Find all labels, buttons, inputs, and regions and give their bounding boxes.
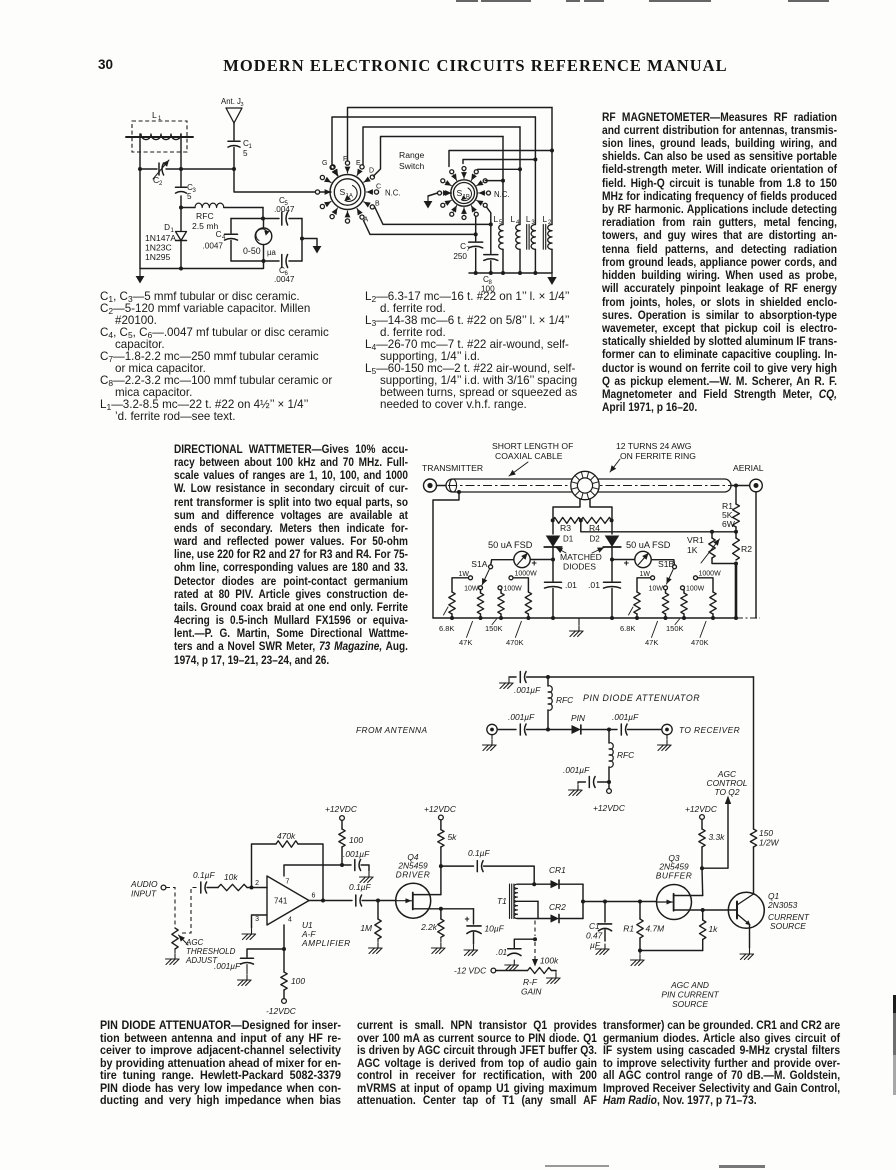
- svg-text:PIN DIODE ATTENUATOR: PIN DIODE ATTENUATOR: [583, 693, 700, 703]
- wire meter to S1B wiper: [651, 560, 674, 565]
- svg-text:.0047: .0047: [274, 205, 295, 214]
- svg-text:1000W: 1000W: [515, 571, 538, 578]
- node D1 meter junction: [551, 558, 555, 562]
- capacitor 10uF electrolytic: [465, 909, 505, 944]
- ground at S1B arm: [427, 196, 429, 201]
- svg-text:470K: 470K: [691, 638, 709, 647]
- node Q4 source: [439, 907, 443, 911]
- svg-text:47K: 47K: [645, 638, 658, 647]
- svg-text:150K: 150K: [666, 624, 684, 633]
- svg-text:0-50: 0-50: [243, 246, 261, 256]
- wire bus 1: [348, 108, 553, 162]
- wire 1000W to 470K (L): [513, 578, 528, 592]
- svg-text:L: L: [526, 215, 531, 224]
- node rail: [664, 616, 668, 620]
- svg-text:AUDIO: AUDIO: [130, 879, 158, 889]
- coaxial cable: [446, 479, 731, 492]
- svg-text:.001µF: .001µF: [514, 685, 541, 695]
- svg-text:1W: 1W: [640, 571, 651, 578]
- svg-text:N.C.: N.C.: [385, 189, 401, 198]
- wire R2 to rail (heavy): [735, 564, 738, 619]
- svg-text:D: D: [164, 223, 170, 232]
- wire bus 4: [374, 137, 504, 177]
- inductor L2 with feed wire: [543, 108, 553, 274]
- wire C4 to 10k: [207, 887, 218, 889]
- capacitor .001uF output: [620, 724, 622, 735]
- svg-text:B: B: [375, 201, 380, 208]
- transistor Q3 JFET buffer: [656, 885, 702, 920]
- svg-text:1N23C: 1N23C: [145, 243, 172, 253]
- capacitor C7: [453, 234, 482, 273]
- schematic: directional wattmeter: [415, 438, 785, 660]
- node D1 rail: [179, 267, 183, 271]
- component list left column: [100, 291, 400, 422]
- wire dashed to RF gain arrow: [534, 942, 536, 959]
- wire S1B stub 2: [463, 160, 535, 164]
- capacitor C2 variable: [140, 160, 234, 187]
- wire center tap to R1 junction: [581, 520, 736, 531]
- svg-text:L: L: [511, 215, 516, 224]
- wire rail dash-dot to aerial leg: [736, 617, 760, 619]
- node T1 top: [532, 882, 536, 886]
- bottom caption column 2: [357, 1020, 597, 1108]
- resistor 6.8K (L): [449, 592, 455, 614]
- wire C3 to receiver: [628, 729, 662, 731]
- svg-text:2N3053: 2N3053: [767, 900, 798, 910]
- svg-text:0.47: 0.47: [586, 931, 603, 941]
- svg-text:THRESHOLD: THRESHOLD: [186, 947, 236, 956]
- capacitor .01 right: [611, 560, 613, 582]
- wire S1A A contact to C7: [364, 221, 476, 235]
- wire meter to D2: [612, 559, 635, 561]
- wire dashed T1 center tap: [534, 921, 536, 937]
- S1A contact stub: [320, 175, 324, 179]
- resistor 5k: [440, 820, 442, 830]
- node rail junction: [474, 271, 478, 275]
- wire C6 to T1: [484, 866, 535, 884]
- svg-text:0.1µF: 0.1µF: [349, 882, 371, 892]
- resistor 3.3k: [701, 819, 703, 829]
- S1A contact stub: [330, 214, 334, 218]
- wire to switch S1A arm: [234, 169, 315, 192]
- wire meter to S1A wiper: [491, 560, 514, 565]
- svg-text:SOURCE: SOURCE: [672, 999, 708, 1009]
- node D2 meter junction: [610, 558, 614, 562]
- terminal +12VDC PIN bias: [608, 782, 610, 789]
- wire source to 10uF: [441, 908, 474, 910]
- svg-text:AGC: AGC: [185, 938, 204, 947]
- resistor R1 4.7M: [638, 900, 642, 904]
- wire S1B stub 1: [449, 151, 552, 167]
- wire 1W to 6.8K (R): [637, 578, 651, 592]
- resistor 1k: [702, 910, 704, 920]
- wire RFC branch: [179, 206, 183, 210]
- wire bus 3: [363, 127, 520, 165]
- svg-text:T1: T1: [497, 896, 507, 906]
- S1A contact stub: [331, 165, 335, 169]
- ground right rail: [551, 273, 553, 277]
- transistor Q4 JFET: [396, 883, 441, 918]
- ground .01: [513, 960, 515, 965]
- scan artifact top edge: [456, 0, 478, 2]
- svg-text:E: E: [356, 160, 361, 167]
- S1A contact B: [370, 205, 374, 209]
- resistor 150K (L): [500, 590, 502, 593]
- capacitor .01 bias filter: [514, 939, 535, 947]
- svg-text:50 uA FSD: 50 uA FSD: [488, 540, 533, 550]
- capacitor 0.1uF Q4 output: [476, 861, 478, 872]
- resistor 150K (R): [683, 590, 685, 593]
- svg-text:D: D: [369, 168, 374, 175]
- capacitor C1: [228, 139, 253, 169]
- inductor L4 with feed wire: [511, 127, 521, 273]
- svg-text:ON FERRITE RING: ON FERRITE RING: [620, 451, 696, 461]
- S1B contact: [474, 170, 478, 174]
- svg-text:.01: .01: [565, 580, 577, 590]
- resistor 150 collector: [753, 677, 755, 829]
- svg-text:100W: 100W: [504, 586, 523, 593]
- svg-text:AMPLIFIER: AMPLIFIER: [301, 938, 351, 948]
- svg-text:R2: R2: [741, 544, 752, 554]
- svg-text:C: C: [216, 230, 222, 239]
- svg-text:7: 7: [286, 879, 290, 886]
- wire S1B arm to ground: [428, 193, 438, 196]
- ferrite ring toroid: [571, 471, 599, 499]
- wire L1 right leg: [180, 134, 182, 169]
- wire to Q4 gate: [362, 900, 396, 902]
- node rail: [450, 616, 454, 620]
- antenna J3: [221, 97, 244, 140]
- svg-text:3: 3: [193, 188, 197, 194]
- svg-text:1M: 1M: [360, 923, 372, 933]
- wire transformer secondary right: [590, 499, 612, 521]
- svg-text:AGC AND: AGC AND: [670, 980, 709, 990]
- wire L1 left leg: [139, 134, 141, 169]
- svg-text:R1: R1: [623, 924, 634, 934]
- node RFC1 top: [546, 675, 550, 679]
- svg-text:150K: 150K: [485, 624, 503, 633]
- leader lines (R): [629, 607, 634, 615]
- cable end ellipse: [449, 479, 456, 492]
- terminal +12VDC Q4: [439, 815, 444, 820]
- inductor L5 with feed wire: [494, 137, 504, 274]
- op-amp U1 741: [255, 876, 315, 925]
- wire ground rail: [433, 617, 736, 619]
- node R1 bottom: [734, 530, 738, 534]
- wire feedback 470k: [252, 844, 277, 888]
- wire left vertical to ground: [139, 169, 141, 269]
- node pin7 supply: [340, 863, 344, 867]
- resistor R1: [735, 486, 737, 505]
- node center tap bias: [533, 937, 537, 941]
- bottom caption column 1: [100, 1020, 341, 1108]
- resistor R3: [553, 517, 581, 523]
- wire dashed wiper to C4: [182, 888, 197, 934]
- svg-text:.01: .01: [588, 580, 600, 590]
- svg-text:.0047: .0047: [274, 275, 295, 284]
- svg-text:µa: µa: [267, 248, 276, 257]
- S1B contact: [441, 179, 445, 183]
- wire detector box bottom: [231, 260, 279, 262]
- svg-text:+12VDC: +12VDC: [593, 803, 626, 813]
- svg-text:250: 250: [453, 252, 467, 261]
- svg-text:N.C.: N.C.: [494, 190, 510, 199]
- svg-text:+12VDC: +12VDC: [424, 804, 457, 814]
- transformer T1: [497, 884, 538, 919]
- S1B contact: [487, 191, 491, 195]
- node Q3 source: [701, 908, 705, 912]
- svg-text:-12VDC: -12VDC: [266, 1006, 297, 1016]
- node rail: [682, 616, 686, 620]
- wire aerial down leg: [755, 492, 757, 618]
- wire C2 to PIN: [527, 729, 573, 731]
- svg-text:GAIN: GAIN: [521, 987, 542, 997]
- svg-text:6: 6: [312, 893, 316, 900]
- svg-text:1N147A: 1N147A: [145, 233, 176, 243]
- capacitor 0.1uF input: [200, 882, 202, 893]
- resistor 47K (R): [665, 590, 667, 593]
- svg-text:1N295: 1N295: [145, 252, 171, 262]
- capacitor .001uF top bypass: [519, 672, 521, 683]
- svg-text:100: 100: [291, 976, 305, 986]
- svg-text:C1: C1: [589, 921, 600, 931]
- svg-text:C: C: [376, 184, 381, 191]
- svg-text:2: 2: [255, 880, 259, 887]
- svg-text:1k: 1k: [709, 924, 719, 934]
- svg-text:6.8K: 6.8K: [439, 624, 454, 633]
- switch contact 100W (R): [681, 586, 685, 590]
- wire meter to D1: [530, 559, 553, 561]
- svg-text:5k: 5k: [448, 832, 458, 842]
- node rail junction: [533, 271, 537, 275]
- svg-text:100: 100: [349, 835, 363, 845]
- ground Q1 emitter: [749, 949, 751, 954]
- terminal +12VDC Q3: [700, 815, 705, 820]
- wire drain to C6: [441, 865, 474, 867]
- wire S1A B contact to C8: [375, 207, 491, 225]
- terminal +12VDC op amp: [340, 816, 345, 821]
- wire op amp output: [309, 900, 352, 902]
- switch contact 1W (L): [469, 576, 473, 580]
- resistor 470K (L): [525, 592, 531, 614]
- svg-text:100: 100: [481, 285, 495, 294]
- wire RFC to detector node: [262, 208, 264, 219]
- svg-text:BUFFER: BUFFER: [656, 871, 693, 881]
- connector receiver jack: [662, 724, 672, 734]
- component list right column: [365, 291, 615, 411]
- S1A wiper contact: [315, 190, 319, 194]
- svg-text:.0047: .0047: [203, 242, 224, 251]
- resistor 100 negative supply: [283, 949, 285, 972]
- svg-text:0.1µF: 0.1µF: [193, 870, 215, 880]
- svg-text:6.8K: 6.8K: [620, 624, 635, 633]
- resistor 1M: [377, 901, 379, 920]
- connector antenna jack: [487, 724, 497, 734]
- svg-text:FROM ANTENNA: FROM ANTENNA: [356, 725, 428, 735]
- resistor 2.2k: [440, 909, 442, 919]
- svg-text:Range: Range: [399, 150, 425, 160]
- wire top rail: [527, 676, 754, 678]
- potentiometer VR1: [711, 532, 713, 538]
- capacitor .01 left: [552, 560, 554, 582]
- wire 1k to ground bus: [640, 950, 703, 952]
- node rail: [526, 616, 530, 620]
- S1B contact: [450, 170, 454, 174]
- schematic: PIN diode attenuator: [120, 665, 890, 1020]
- diode D2: [611, 521, 613, 534]
- svg-text:L: L: [543, 215, 548, 224]
- resistor 6.8K (R): [634, 592, 640, 614]
- ground top-left bypass: [509, 676, 516, 678]
- switch contact 1000W (L): [509, 576, 513, 580]
- svg-text:4: 4: [288, 917, 292, 924]
- svg-text:G: G: [322, 160, 327, 167]
- svg-text:5: 5: [243, 149, 248, 158]
- resistor 470K (R): [710, 592, 716, 614]
- svg-text:+12VDC: +12VDC: [685, 804, 718, 814]
- wire Q1 emitter to ground: [749, 925, 751, 949]
- wire Q3 source to Q1 base: [703, 909, 737, 911]
- resistor R4: [581, 517, 612, 523]
- inductor L3 with feed wire: [526, 117, 536, 273]
- meter M1 left: [514, 551, 530, 567]
- S1A contact D: [370, 175, 374, 179]
- wire S1B stub 4: [485, 180, 503, 182]
- S1A contact stub: [345, 219, 349, 223]
- svg-text:3.3k: 3.3k: [709, 832, 726, 842]
- node cap left rail: [551, 616, 555, 620]
- svg-text:3: 3: [241, 102, 244, 108]
- node antenna junction: [232, 167, 236, 171]
- switch contact 1000W (R): [694, 576, 698, 580]
- wire pin 4: [283, 925, 285, 949]
- wire bottom rail left: [140, 261, 264, 269]
- ground R1/1k: [639, 951, 641, 955]
- svg-text:PIN: PIN: [571, 713, 586, 723]
- svg-text:12 TURNS 24 AWG: 12 TURNS 24 AWG: [616, 441, 692, 451]
- resistor 470k: [276, 841, 298, 847]
- meter M1 0-50 uA: [243, 219, 276, 262]
- S1B contact: [441, 203, 445, 207]
- S1A contact stub: [320, 204, 324, 208]
- DIRECTIONAL WATTMETER caption: [174, 444, 408, 668]
- S1B contact: [483, 203, 487, 207]
- node pin 4: [282, 947, 286, 951]
- svg-text:4.7M: 4.7M: [646, 924, 665, 934]
- svg-text:.001µF: .001µF: [508, 712, 535, 722]
- svg-text:.001µF: .001µF: [343, 849, 370, 859]
- wire to ground arm: [302, 239, 317, 247]
- resistor R2: [735, 532, 737, 538]
- wire AGC control: [702, 803, 728, 868]
- wire ground rail: [469, 272, 552, 274]
- svg-text:RFC: RFC: [556, 695, 574, 705]
- svg-text:.01: .01: [496, 948, 507, 957]
- svg-text:1W: 1W: [459, 571, 470, 578]
- wire antenna to C2: [497, 729, 516, 731]
- inductor RFC1: [548, 677, 574, 730]
- svg-text:TRANSMITTER: TRANSMITTER: [422, 463, 483, 473]
- ground symbol: [578, 618, 580, 625]
- svg-text:CR1: CR1: [549, 865, 566, 875]
- wire 10k to pin 2: [247, 887, 267, 889]
- wire feedback down to output: [298, 844, 323, 901]
- ground RF gain pot: [551, 970, 556, 972]
- potentiometer AGC threshold adjust: [172, 928, 178, 949]
- transistor Q1 2N3053: [728, 892, 764, 928]
- svg-text:10k: 10k: [224, 872, 238, 882]
- wire S1B stub 3: [478, 168, 520, 170]
- svg-text:3: 3: [255, 916, 259, 923]
- svg-text:470K: 470K: [506, 638, 524, 647]
- wire -12VDC to pot: [496, 970, 528, 972]
- svg-text:47K: 47K: [459, 638, 472, 647]
- svg-text:+: +: [465, 914, 470, 924]
- node AGC takeoff: [700, 866, 704, 870]
- ground AGC pot: [174, 949, 176, 953]
- node rail junction: [518, 271, 522, 275]
- S1A contact F: [345, 161, 349, 165]
- S1B contact: [462, 216, 466, 220]
- svg-text:.001µF: .001µF: [563, 765, 590, 775]
- switch contact 100W (L): [498, 586, 502, 590]
- capacitor .001uF input: [519, 724, 521, 735]
- ground 1M: [377, 939, 379, 942]
- rotary switch S1B: [451, 180, 477, 206]
- svg-text:10W: 10W: [649, 586, 664, 593]
- svg-text:100W: 100W: [686, 586, 705, 593]
- S1B contact: [462, 167, 466, 171]
- svg-text:1000W: 1000W: [699, 571, 722, 578]
- switch contact 10W (R): [664, 586, 668, 590]
- capacitor 0.1uF interstage: [355, 895, 357, 906]
- node rail right: [734, 616, 738, 620]
- svg-text:DRIVER: DRIVER: [396, 870, 431, 880]
- S1B contact: [438, 191, 442, 195]
- wire pin 3 to ground: [252, 915, 268, 928]
- terminal audio input: [161, 885, 166, 890]
- svg-text:D2: D2: [590, 535, 601, 544]
- diode CR1: [534, 883, 550, 885]
- svg-text:S1A: S1A: [471, 559, 488, 569]
- svg-text:741: 741: [274, 897, 288, 906]
- S1B contact: [483, 179, 487, 183]
- svg-text:C: C: [460, 242, 466, 251]
- svg-text:TO Q2: TO Q2: [715, 787, 740, 797]
- wire 1W to 6.8K (L): [452, 578, 468, 592]
- capacitor .001uF pin4 bypass: [247, 949, 284, 957]
- S1A contact G: [330, 165, 334, 169]
- wire bus 2: [332, 117, 535, 165]
- ground supply bypass: [361, 865, 369, 871]
- capacitor C8: [481, 224, 498, 293]
- svg-text:RFC: RFC: [617, 750, 635, 760]
- svg-text:50 uA FSD: 50 uA FSD: [626, 540, 671, 550]
- diode PIN: [572, 725, 581, 734]
- S1B contact: [450, 212, 454, 216]
- node rail: [479, 616, 483, 620]
- svg-text:PIN CURRENT: PIN CURRENT: [661, 990, 719, 1000]
- svg-text:SOURCE: SOURCE: [770, 921, 806, 931]
- svg-text:DIODES: DIODES: [563, 562, 596, 572]
- ground bias bypass: [578, 781, 585, 783]
- rotary switch S1A: [330, 175, 365, 210]
- bottom caption column 3: [603, 1020, 840, 1108]
- leader lines (L): [444, 607, 449, 615]
- capacitor C3: [176, 169, 197, 208]
- wire detector box top: [231, 218, 279, 220]
- page number: [98, 57, 113, 72]
